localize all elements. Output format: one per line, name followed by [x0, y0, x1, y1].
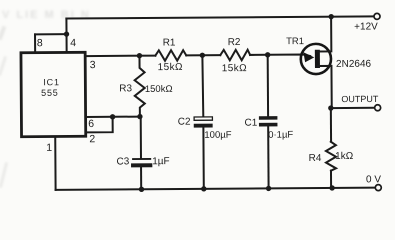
pin 1 stub to 0V rail: [46, 136, 55, 189]
wire R2 to TR1 emitter: [250, 55, 310, 57]
IC1 555 timer body: [21, 52, 86, 136]
junction dot pin4 bridge: [64, 31, 69, 36]
wire 0V bottom rail: [56, 188, 376, 190]
svg-text:4: 4: [70, 37, 76, 49]
svg-text:R4: R4: [309, 153, 322, 164]
resistor R2 15k: [220, 37, 250, 74]
capacitor C3 1uF: [116, 116, 170, 189]
svg-text:0·1µF: 0·1µF: [268, 130, 293, 141]
svg-text:TR1: TR1: [286, 36, 304, 47]
junction dot C1 / 0V rail: [266, 186, 271, 191]
node A dot R1/R2/C2: [200, 53, 205, 58]
svg-text:3: 3: [90, 59, 96, 71]
svg-text:555: 555: [41, 88, 58, 98]
wire R4 to 0V rail: [330, 171, 332, 188]
svg-text:R3: R3: [119, 83, 132, 94]
capacitor C1 0.1uF: [244, 55, 294, 189]
resistor R4 1k: [308, 142, 353, 171]
junction dot top rail / TR1 b2: [328, 14, 333, 19]
wire OUTPUT node to R4: [330, 108, 332, 142]
junction dot C3 / 0V rail: [139, 187, 144, 192]
junction dot R3/C3 node: [137, 114, 142, 119]
svg-text:R2: R2: [228, 37, 241, 48]
pin 6 stub wire: [86, 117, 140, 130]
svg-text:0 V: 0 V: [366, 174, 381, 185]
resistor R3 150k: [119, 55, 173, 116]
svg-text:OUTPUT: OUTPUT: [341, 94, 379, 104]
wire +12V top rail: [66, 16, 373, 18]
svg-text:150kΩ: 150kΩ: [145, 84, 173, 95]
terminal +12V: [354, 13, 380, 32]
junction dot pin6 tie: [110, 114, 115, 119]
svg-text:1: 1: [46, 142, 52, 154]
capacitor C2 100uF electrolytic: [177, 55, 232, 189]
svg-text:1µF: 1µF: [152, 156, 170, 167]
pin 3 stub and wire to R1: [85, 56, 155, 72]
transistor TR1 2N2646 UJT: [286, 16, 372, 108]
svg-text:R1: R1: [163, 37, 176, 48]
svg-text:15kΩ: 15kΩ: [222, 63, 247, 74]
svg-text:C3: C3: [116, 156, 129, 167]
resistor R1 15k: [155, 37, 186, 73]
junction dot pin3 / R3: [137, 53, 142, 58]
svg-text:C1: C1: [245, 118, 258, 129]
wire R1 to R2: [186, 54, 220, 56]
svg-text:8: 8: [37, 37, 43, 49]
svg-text:100µF: 100µF: [204, 130, 231, 141]
node B dot R2/C1/TR1: [265, 52, 270, 57]
svg-text:1kΩ: 1kΩ: [335, 151, 354, 162]
svg-text:C2: C2: [178, 117, 191, 128]
svg-text:15kΩ: 15kΩ: [158, 62, 183, 73]
junction dot R4 / 0V rail: [329, 185, 334, 190]
node dot TR1 b1 / OUTPUT / R4: [328, 105, 333, 110]
pin 4 stub: [66, 18, 76, 52]
svg-text:IC1: IC1: [43, 77, 59, 87]
wire to OUTPUT terminal: [331, 107, 375, 109]
svg-text:6: 6: [88, 118, 94, 130]
junction dot C2 / 0V rail: [201, 186, 206, 191]
svg-text:2: 2: [89, 133, 95, 145]
wire pin8-pin4 bridge: [35, 33, 66, 35]
terminal OUTPUT: [341, 94, 380, 111]
terminal 0V: [366, 174, 381, 190]
pin 2 stub wire: [86, 117, 113, 145]
svg-text:+12V: +12V: [354, 21, 378, 32]
pin 8 stub: [35, 34, 43, 52]
svg-text:2N2646: 2N2646: [336, 59, 372, 70]
